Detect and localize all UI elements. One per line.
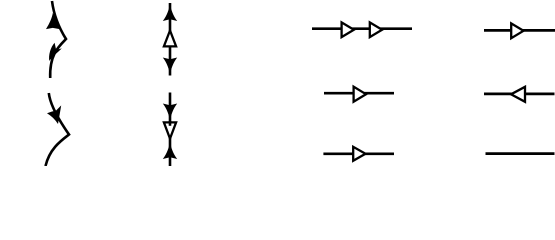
open triangle marker on col4 row1 — [511, 23, 523, 38]
stealth head B (down-left) on top-left arrow — [49, 43, 62, 61]
wire col4 row1 — [484, 29, 555, 32]
stealth head down at bottom end — [163, 58, 177, 76]
open triangle marker (left) on col4 row2 — [511, 87, 525, 102]
wire col3 row1 — [312, 27, 412, 30]
stealth head up (points at triangle apex) — [163, 141, 177, 159]
stealth head C (down-right) on bottom-left arrow — [47, 105, 61, 124]
curved arrow path (bottom-left), hook with cusp, exits bottom edge — [46, 93, 70, 166]
wire col4 row3 — [486, 152, 555, 155]
vertical double-headed arrow with open triangle (col2 top) — [169, 3, 172, 76]
stealth head up at top end — [163, 3, 177, 21]
open triangle marker pointing down — [164, 122, 176, 138]
wire col3 row2 — [324, 92, 394, 95]
wire col4 row2 — [484, 93, 555, 96]
curved arrow path (top-left), hook with cusp — [50, 1, 66, 78]
wire col3 row3 — [323, 152, 394, 155]
open triangle marker 1 on col3 row1 — [342, 22, 354, 37]
open triangle marker on col3 row3 — [353, 147, 365, 161]
stealth head down (points at triangle base) — [163, 104, 177, 122]
open triangle marker 2 on col3 row1 — [370, 22, 382, 37]
arrow tip stub poking through triangle base — [169, 121, 172, 126]
open triangle marker pointing up — [164, 31, 176, 47]
open triangle marker on col3 row2 — [354, 87, 366, 102]
vertical line with inward stealth heads and open down-triangle (col2 bottom) — [169, 93, 172, 167]
stealth head A (up) on top-left arrow — [46, 13, 61, 30]
